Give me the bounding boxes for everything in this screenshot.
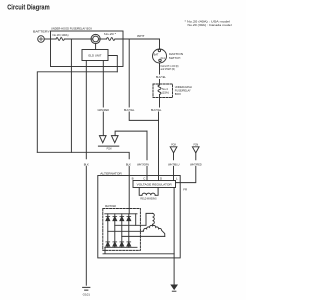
svg-text:BLK: BLK [126,163,131,167]
rectifier top bus [105,213,137,215]
svg-text:PCM: PCM [107,147,112,151]
svg-text:FR: FR [183,187,187,191]
manifold wire y=152.3 [37,152,129,159]
battery B1 [33,29,50,42]
svg-text:(15A): (15A) [162,90,169,94]
diode D8 [127,242,131,246]
svg-text:D: D [160,177,162,181]
rectifier to case ground wire [103,247,174,254]
rectifier column wires [108,214,129,248]
wire ELD to fuse No.20 [100,38,106,40]
svg-text:C: C [143,177,145,181]
svg-text:G101: G101 [83,293,91,297]
svg-text:VOLTAGE REGULATOR: VOLTAGE REGULATOR [137,183,172,187]
phase wire 2 [108,230,144,232]
phase wire 3 [122,235,165,237]
svg-text:Circuit Diagram: Circuit Diagram [7,3,50,12]
chassis ground symbol [171,285,177,289]
svg-text:WHT/GRN: WHT/GRN [137,163,149,167]
svg-text:RECTIFIER: RECTIFIER [105,204,116,208]
under-hood fuse/relay box [51,27,124,67]
svg-text:BOX: BOX [175,92,181,96]
diode D1 [106,217,110,221]
svg-text:FIELD WINDING: FIELD WINDING [140,197,156,201]
ELD current sensor circle [91,34,100,43]
wire B pin to rectifier bus [128,176,130,214]
connector triangle from PCM (WHT/RED) [176,142,202,191]
svg-text:SWITCH: SWITCH [169,56,181,60]
wire ignition to under-dash box, label BLK/YEL [159,63,161,74]
wire junction WHT drop at x=129, label BLK/YEL [128,39,130,107]
wire under-dash box down, label BLK/YEL, to D pin [159,95,161,107]
svg-text:PCM: PCM [194,142,199,146]
stator top coil [153,213,155,225]
svg-text:BLK: BLK [84,163,89,167]
svg-text:BAT: BAT [154,52,159,56]
ELD unit box [82,44,108,61]
svg-text:ALTERNATOR: ALTERNATOR [100,171,122,175]
svg-text:UNDER-HOOD FUSE/RELAY BOX: UNDER-HOOD FUSE/RELAY BOX [51,27,92,31]
wire ELD unit bottom right (GRN/RED) [102,61,104,108]
svg-text:No.20 *: No.20 * [104,32,117,36]
fuse No.20 * [104,32,117,40]
regulator ground wire to case [173,188,175,254]
wire fuse No.20 to ignition switch, label WHT [115,38,160,40]
svg-text:ELD UNIT: ELD UNIT [89,54,102,58]
wire battery junction drop at x=71.4 [70,39,72,152]
ignition switch SW [153,49,184,63]
diode D6 [113,242,117,246]
ground G101 [83,287,91,296]
rectifier dashed box [103,204,141,250]
svg-text:B: B [132,177,134,181]
bus wire y=71.8 [37,72,117,153]
connector triangle from PCM (WHT/BLU) [168,142,179,175]
connector triangle to PCM (left pair) [98,131,147,151]
fuse No.4 (15A) [158,85,169,94]
svg-text:WHT/RED: WHT/RED [190,163,202,167]
svg-text:WHT/BLU: WHT/BLU [168,163,179,167]
field winding L1 [139,188,158,201]
wire down to ignition switch [159,39,161,49]
wire ELD unit right side to bus [108,56,117,72]
under-dash fuse/relay box [153,84,192,98]
diode D4 [127,217,131,221]
rectifier bottom bus [105,246,137,248]
stator winding elbow [146,213,153,225]
svg-text:No.20 (30A) : Canada model: No.20 (30A) : Canada model [188,23,232,27]
svg-text:IG1: IG1 [161,56,166,60]
diode D2 [113,217,117,221]
svg-text:PCM: PCM [171,142,176,146]
diode D5 [106,242,110,246]
wire C pin chain [146,131,148,160]
stub column to phase 1 [135,214,137,226]
svg-text:WHT: WHT [137,34,145,38]
wire ELD unit bottom left (ground BLK) [85,61,87,159]
stator left arm coil [143,225,152,231]
wire fuse to ELD sensor [64,38,91,40]
wire battery to fuse No.18 [44,38,56,40]
diode D3 [120,217,124,221]
diode D7 [120,242,124,246]
svg-text:and START (III): and START (III) [161,67,175,71]
voltage regulator box [133,181,176,188]
svg-text:BLK/YEL: BLK/YEL [156,75,166,79]
fuse No.18 (100A) [53,33,69,40]
svg-text:No.18 (100A): No.18 (100A) [53,33,69,37]
alternator box [98,171,180,258]
phase wire 1 [115,224,146,226]
svg-text:BATTERY: BATTERY [33,29,50,33]
svg-text:BLK/YEL: BLK/YEL [151,108,162,112]
pin stubs into regulator [147,176,174,181]
stator right arm coil [153,225,165,236]
case ground drop [173,254,175,285]
